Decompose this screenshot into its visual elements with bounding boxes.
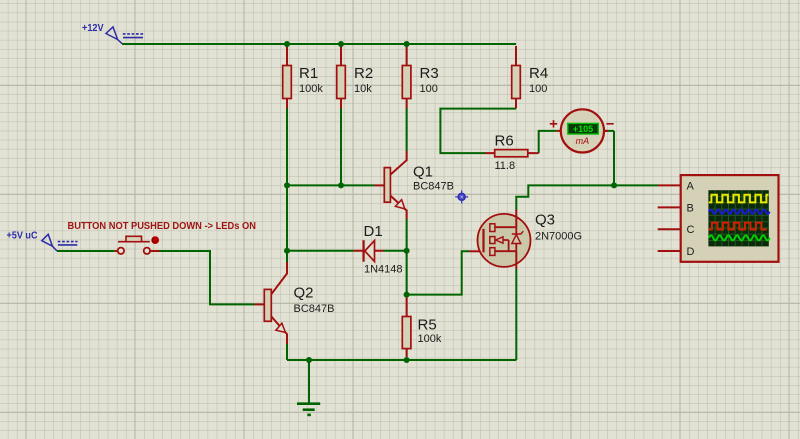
svg-text:D: D <box>687 246 695 258</box>
svg-text:R2: R2 <box>354 65 373 82</box>
transistor Q2 <box>255 262 335 344</box>
junction node (287,44) <box>284 41 290 47</box>
diode D1 <box>354 223 403 276</box>
origin marker (blue target) <box>455 190 468 203</box>
svg-text:Q3: Q3 <box>535 212 555 229</box>
wire D1 anode-side <box>287 250 354 252</box>
junction node (341,44) <box>338 41 344 47</box>
svg-text:R1: R1 <box>299 65 318 82</box>
resistor R2 <box>337 46 373 109</box>
wire bottom rail <box>287 359 516 361</box>
junction node (287,250.8) <box>284 248 290 254</box>
wire Q1 base net <box>287 184 375 186</box>
svg-text:D1: D1 <box>364 223 383 240</box>
wire R2 bottom <box>340 109 342 186</box>
svg-text:BUTTON NOT PUSHED DOWN -> LEDs: BUTTON NOT PUSHED DOWN -> LEDs ON <box>68 220 257 232</box>
svg-text:A: A <box>687 181 695 193</box>
svg-text:100k: 100k <box>418 333 442 345</box>
wire Q3 source down <box>515 269 517 360</box>
svg-text:100: 100 <box>420 83 438 95</box>
resistor R4 <box>512 46 548 109</box>
svg-text:2N7000G: 2N7000G <box>535 231 582 243</box>
transistor Q1 <box>375 151 454 219</box>
svg-text:B: B <box>687 202 694 214</box>
wire ground drop <box>308 360 310 404</box>
svg-text:11.8: 11.8 <box>495 160 516 172</box>
svg-text:100k: 100k <box>299 83 323 95</box>
scope screen <box>708 190 768 246</box>
junction node (406.6,250.8) <box>404 248 410 254</box>
wire gate run R5 to Q3 <box>407 251 469 294</box>
svg-text:R4: R4 <box>529 65 548 82</box>
resistor R3 <box>402 46 438 109</box>
wire R6 to ammeter <box>539 131 557 153</box>
wire ammeter to minus node <box>604 130 614 132</box>
junction node (287,185.4) <box>284 182 290 188</box>
junction node (406.6,44) <box>404 41 410 47</box>
svg-text:R6: R6 <box>495 133 514 150</box>
waveform yellow square <box>709 195 769 203</box>
svg-text:+5V uC: +5V uC <box>7 229 38 241</box>
svg-text:C: C <box>687 224 695 236</box>
wire R3 bottom <box>406 109 408 152</box>
power flag +12V <box>82 22 143 44</box>
resistor R6 <box>485 133 539 172</box>
ground <box>297 404 320 415</box>
resistor R5 <box>402 296 442 357</box>
button (push switch) <box>115 236 160 254</box>
svg-text:BC847B: BC847B <box>413 180 454 192</box>
wire Q2 emitter to ground rail <box>286 344 288 360</box>
junction node (614,185.4) <box>611 182 617 188</box>
svg-text:+12V: +12V <box>82 22 104 34</box>
svg-text:10k: 10k <box>354 83 372 95</box>
ammeter (DC current probe) <box>550 109 614 152</box>
wire R1 column net <box>286 109 288 263</box>
waveform blue sine <box>709 210 770 214</box>
wire D1 to node <box>384 250 407 252</box>
wire +5V to button <box>57 250 115 252</box>
resistor R1 <box>283 46 324 109</box>
wire +12V rail <box>122 43 516 45</box>
svg-text:100: 100 <box>529 83 547 95</box>
svg-text:mA: mA <box>576 136 590 146</box>
svg-text:1N4148: 1N4148 <box>364 263 403 275</box>
wire button to Q2 base <box>160 251 255 304</box>
transistor Q3 MOSFET <box>469 210 582 269</box>
junction node (406.6,360) <box>404 357 410 363</box>
svg-text:R5: R5 <box>418 316 437 333</box>
wire R4 to R6 link <box>440 109 516 154</box>
oscilloscope / logic analyser block <box>658 175 779 262</box>
junction node (341,185.4) <box>338 182 344 188</box>
wire Q3 drain to scope A <box>516 185 658 210</box>
wire ammeter minus down <box>613 131 615 186</box>
junction node (309,360) <box>306 357 312 363</box>
svg-text:R3: R3 <box>420 65 439 82</box>
svg-text:BC847B: BC847B <box>294 303 335 315</box>
wire Q1 emitter to R5 <box>406 219 408 295</box>
waveform red square <box>709 223 767 230</box>
junction node (406.6,294.6) <box>404 292 410 298</box>
svg-text:Q2: Q2 <box>294 285 314 302</box>
svg-text:Q1: Q1 <box>413 164 433 181</box>
power flag +5V uC <box>7 229 78 251</box>
svg-text:+105: +105 <box>573 124 593 134</box>
waveform green sine <box>709 235 770 240</box>
